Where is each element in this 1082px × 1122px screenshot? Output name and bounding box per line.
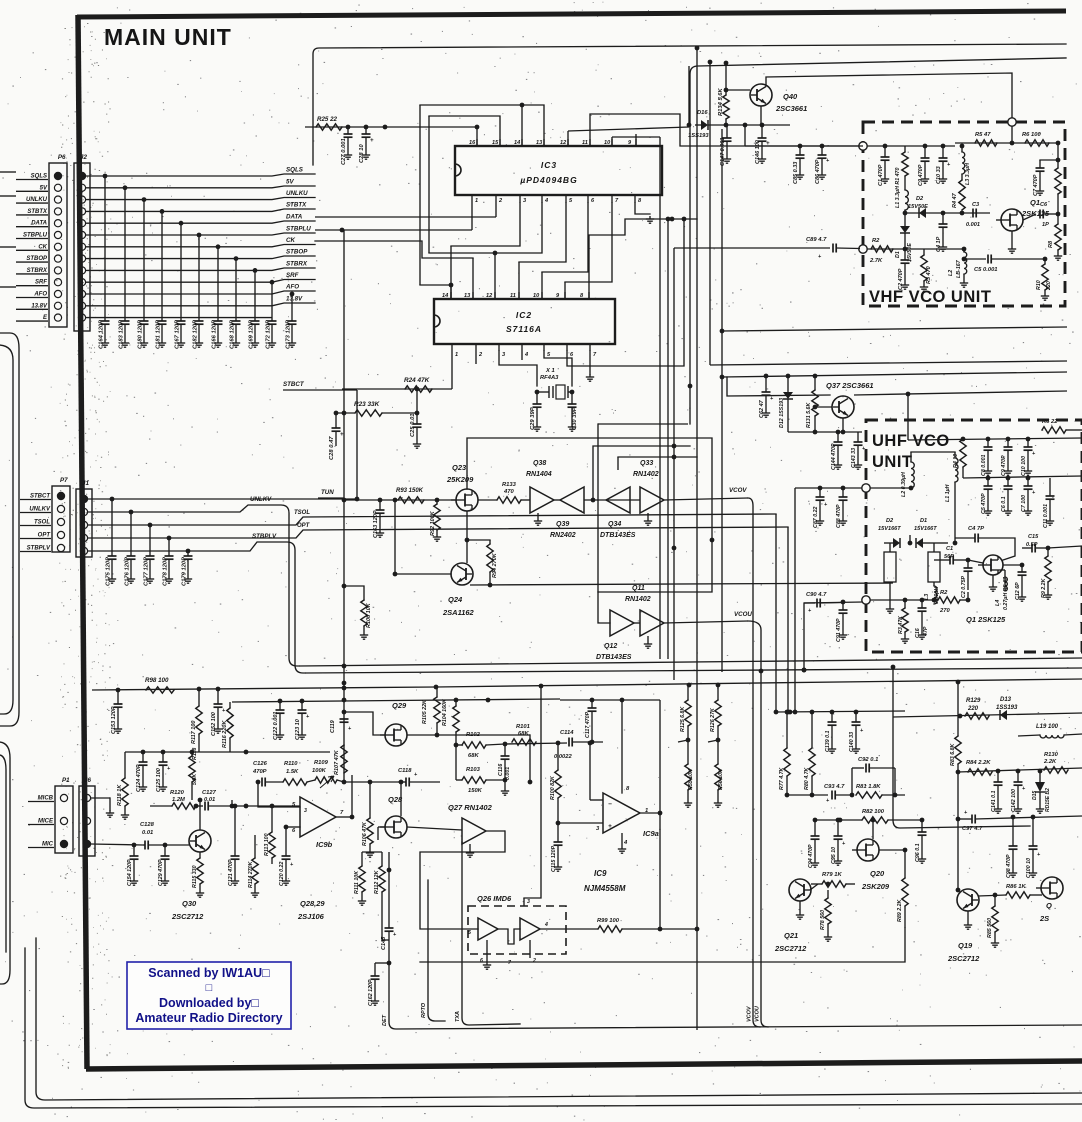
resistor R78 560 xyxy=(827,890,829,898)
wire Q23 drain loop xyxy=(467,438,712,540)
svg-text:UNLKU: UNLKU xyxy=(286,190,308,197)
svg-text:C164 120P: C164 120P xyxy=(99,320,105,349)
svg-text:C28 10: C28 10 xyxy=(359,144,365,163)
svg-text:2SJ106: 2SJ106 xyxy=(297,912,325,921)
svg-text:C116: C116 xyxy=(498,764,504,776)
wire VHF top rail xyxy=(867,145,905,147)
op-amp IC9a xyxy=(603,793,640,833)
capacitor C114 0.0022 xyxy=(568,738,570,747)
svg-text:R2: R2 xyxy=(940,590,948,596)
capacitor C92 0.1 xyxy=(851,768,853,795)
capacitor C5 0.001 xyxy=(964,258,986,260)
svg-text:10: 10 xyxy=(533,293,540,299)
svg-text:C5 0.001: C5 0.001 xyxy=(974,267,998,273)
wire Q23 source xyxy=(466,511,468,563)
resistor R77 4.7K xyxy=(786,712,788,748)
svg-text:R83 6.8K: R83 6.8K xyxy=(950,742,956,766)
capacitor C96 0.1 xyxy=(921,822,923,832)
svg-text:3: 3 xyxy=(304,808,307,814)
wire vertical bus x697 xyxy=(696,46,698,1030)
resistor R79 1K xyxy=(811,883,822,885)
wire IC9a power xyxy=(621,833,623,846)
wire IC9b in- xyxy=(286,826,300,828)
capacitor C121 470P xyxy=(234,845,236,856)
wire vertical bus x420 xyxy=(419,105,421,285)
svg-text:C15: C15 xyxy=(1028,534,1039,540)
svg-text:C10 100: C10 100 xyxy=(1021,456,1027,476)
svg-text:C183 120P: C183 120P xyxy=(119,320,125,349)
wire VCOU riser xyxy=(748,621,768,1027)
resonator UHF left xyxy=(889,543,891,552)
connector P6 pin DATA xyxy=(54,220,61,227)
wire R112 to C145 xyxy=(382,939,389,941)
svg-text:CK: CK xyxy=(38,244,47,250)
svg-text:2SC2712: 2SC2712 xyxy=(774,944,807,953)
wire Q37 base xyxy=(815,406,832,408)
capacitor C117 470P xyxy=(591,700,593,708)
svg-text:R78 560: R78 560 xyxy=(820,910,826,930)
resistor R86 1K xyxy=(978,895,1006,896)
svg-text:15: 15 xyxy=(492,140,499,146)
resistor R99 100 xyxy=(598,926,622,932)
svg-text:R103: R103 xyxy=(466,767,481,773)
svg-text:C89 4.7: C89 4.7 xyxy=(806,237,827,243)
capacitor C144 470P xyxy=(837,432,839,442)
svg-text:C87 0.22: C87 0.22 xyxy=(813,506,819,528)
svg-text:Q39: Q39 xyxy=(556,521,569,528)
resistor R89 2.2K xyxy=(904,850,906,878)
wire net STBTX xyxy=(86,209,315,211)
svg-text:Scanned by IW1AU□: Scanned by IW1AU□ xyxy=(148,966,270,980)
resistor R115 330 xyxy=(199,852,201,858)
svg-text:Q1: Q1 xyxy=(1030,198,1040,207)
svg-text:R92 100K: R92 100K xyxy=(430,510,436,536)
connector J2 pin 9 xyxy=(78,267,85,274)
svg-text:C95 10: C95 10 xyxy=(831,847,837,864)
transistor Q20 2SK209 xyxy=(857,839,879,861)
outer sheet bracket upper xyxy=(0,333,19,726)
resistor R55 10K xyxy=(687,740,689,764)
resistor R133 470 xyxy=(478,499,497,501)
resistor R105 22K xyxy=(436,687,438,697)
svg-text:R114 270K: R114 270K xyxy=(248,860,254,888)
resistor R80 4.7K xyxy=(811,712,813,748)
svg-text:C140 33: C140 33 xyxy=(849,732,855,752)
capacitor C6 0.1 UHF xyxy=(1007,478,1009,486)
svg-text:IC3: IC3 xyxy=(541,160,557,170)
connector P6 pin E xyxy=(54,314,61,321)
border frame top xyxy=(77,11,1066,17)
svg-text:C4 7P: C4 7P xyxy=(968,526,984,532)
resistor R4 10 UHF xyxy=(960,439,966,467)
capacitor C88 470P xyxy=(842,488,844,497)
capacitor C94 470P xyxy=(814,820,816,836)
svg-text:R102: R102 xyxy=(466,732,481,738)
IC3 bottom pin 1 xyxy=(471,195,473,203)
connector P6 pin STBOP xyxy=(54,255,61,262)
capacitor C147 0.001 xyxy=(726,125,728,138)
wire Q1 UHF source xyxy=(992,575,994,584)
svg-text:DTB143ES: DTB143ES xyxy=(596,654,632,661)
capacitor C142 100 xyxy=(1017,771,1019,782)
svg-text:C96 0.1: C96 0.1 xyxy=(915,843,921,862)
svg-text:TUN: TUN xyxy=(321,489,334,496)
svg-text:C127: C127 xyxy=(202,790,217,796)
svg-text:R6 22: R6 22 xyxy=(1042,419,1058,425)
capacitor C127 0.01 xyxy=(204,802,206,811)
outer sheet bracket upper inner xyxy=(0,345,13,714)
wire VHF lower rail xyxy=(867,248,905,250)
diode D2 15V50E xyxy=(919,208,926,218)
svg-text:OPT: OPT xyxy=(297,523,311,529)
capacitor C166 120P xyxy=(216,244,221,249)
capacitor C15 0.5P xyxy=(1031,544,1033,553)
wire net CK to IC2 pin13 xyxy=(315,241,473,258)
op-amp Q34 DTB143ES xyxy=(606,487,630,513)
resistor R114 270K xyxy=(254,835,256,858)
capacitor C86 470P xyxy=(821,146,823,155)
capacitor C177 120P xyxy=(148,523,153,528)
capacitor C95 10 xyxy=(837,820,839,836)
svg-text:C92 0.1: C92 0.1 xyxy=(858,757,878,763)
op-amp IC3 uPD4094BG xyxy=(455,146,662,195)
IC3 top pin 13 xyxy=(543,139,545,146)
svg-text:LB-167: LB-167 xyxy=(956,259,962,278)
svg-text:RD15E B2: RD15E B2 xyxy=(1045,788,1051,812)
svg-text:4: 4 xyxy=(544,922,548,928)
IC3 bottom pin 6 xyxy=(587,195,589,203)
svg-text:Q37 2SC3661: Q37 2SC3661 xyxy=(826,381,874,390)
IC3 top pin 9 xyxy=(635,139,637,146)
svg-text:C28 0.47: C28 0.47 xyxy=(329,436,335,460)
wire UHF top rail xyxy=(908,438,1082,440)
capacitor C28b 0.47 xyxy=(335,413,337,428)
svg-text:1P: 1P xyxy=(1042,222,1049,228)
resistor R98 100 xyxy=(146,687,174,693)
svg-text:D2: D2 xyxy=(916,196,924,202)
svg-text:R126 27K: R126 27K xyxy=(710,707,716,732)
svg-text:C9 470P: C9 470P xyxy=(1001,455,1007,476)
svg-text:STBPLV: STBPLV xyxy=(252,533,277,540)
wire IC2 pin2 stub xyxy=(475,351,477,364)
wire vertical bus x668 xyxy=(667,219,669,659)
capacitor C162 120P xyxy=(375,962,389,964)
svg-text:C139 0.1: C139 0.1 xyxy=(825,730,831,752)
wire bottom net rail xyxy=(396,1025,1082,1029)
capacitor C120 0.22 xyxy=(285,827,287,856)
resistor R10 220 xyxy=(1044,259,1046,264)
wire UHF second rail xyxy=(963,476,1082,478)
wire IC3 pin5 to IC2 pin11 xyxy=(519,203,566,262)
wire IC3 pin6 to IC2 pin10 xyxy=(542,203,588,272)
capacitor C153 120P xyxy=(117,690,119,704)
svg-text:0.01: 0.01 xyxy=(204,797,215,803)
capacitor C10 100 UHF xyxy=(1027,439,1029,447)
capacitor C122 0.001 xyxy=(279,701,281,710)
svg-text:Q11: Q11 xyxy=(632,585,645,592)
svg-text:270: 270 xyxy=(939,608,950,614)
svg-text:Amateur Radio Directory: Amateur Radio Directory xyxy=(135,1011,282,1025)
svg-text:STBOP: STBOP xyxy=(286,249,308,256)
svg-text:R107 47K: R107 47K xyxy=(334,749,340,775)
wire net STBOP xyxy=(86,256,315,259)
svg-text:L1 3.3µH R1 470: L1 3.3µH R1 470 xyxy=(895,168,901,208)
svg-text:VCOV: VCOV xyxy=(747,1005,753,1022)
svg-text:C2 470P: C2 470P xyxy=(898,268,904,290)
connector J1 pin 5 xyxy=(80,547,87,554)
svg-text:13.8V: 13.8V xyxy=(286,296,303,303)
capacitor C152 100 xyxy=(217,689,219,704)
IC3 bottom pin 7 xyxy=(611,195,613,203)
svg-text:L3: L3 xyxy=(924,594,930,600)
diode D2 15V166T UHF xyxy=(884,542,893,544)
wire Q30 collector rail xyxy=(192,799,232,801)
wire IC9a out drop xyxy=(659,813,661,929)
wire left edge stub 2 xyxy=(0,195,16,197)
svg-text:C1 470P: C1 470P xyxy=(878,164,884,186)
wire IC3 pin13 bus xyxy=(420,105,544,146)
wire net AFO xyxy=(86,291,315,294)
svg-text:2.2K: 2.2K xyxy=(1043,759,1057,765)
svg-text:AFO: AFO xyxy=(285,284,299,291)
connector J2 pin 7 xyxy=(78,243,85,250)
svg-text:Downloaded by□: Downloaded by□ xyxy=(159,996,259,1010)
watermark box xyxy=(127,962,291,1029)
capacitor C11 0.001 xyxy=(1049,478,1051,496)
svg-text:P6: P6 xyxy=(58,154,66,161)
wire VCOV xyxy=(664,498,748,500)
svg-text:S7116A: S7116A xyxy=(506,324,542,334)
resistor R106 47K xyxy=(369,782,371,818)
svg-text:C152 100: C152 100 xyxy=(211,712,217,736)
capacitor C7 470P xyxy=(1040,159,1058,161)
svg-text:10: 10 xyxy=(604,140,611,146)
transistor Q24 2SA1162 xyxy=(451,563,473,585)
svg-text:15V50E: 15V50E xyxy=(907,243,913,262)
capacitor C180 120P xyxy=(142,197,147,202)
IC2 bottom pin 7 xyxy=(589,344,591,351)
wire net STBPLU xyxy=(86,233,315,235)
wire net STBCT xyxy=(88,498,357,500)
svg-text:0.001: 0.001 xyxy=(966,222,980,228)
wire IC2 pin4 stub xyxy=(521,351,523,360)
svg-text:16: 16 xyxy=(469,140,476,146)
wire TXA riser xyxy=(462,842,520,1025)
svg-text:R89 2.2K: R89 2.2K xyxy=(897,898,903,922)
wire Q39 junction xyxy=(584,499,640,501)
IC2 bottom pin 2 xyxy=(475,344,477,351)
IC3 top pin 15 xyxy=(499,139,501,146)
wire UHF gate rail xyxy=(870,487,911,489)
wire Q37 top rail xyxy=(786,374,791,379)
svg-text:C6 0.1: C6 0.1 xyxy=(1001,496,1007,512)
svg-text:Q34: Q34 xyxy=(608,521,621,528)
wire R119 rail xyxy=(125,751,330,753)
wire IC3 pin4 to IC2 pin12 xyxy=(429,203,542,253)
svg-text:R2: R2 xyxy=(872,238,880,244)
wire net SRF xyxy=(86,280,315,283)
wire IC3 pin15 bus xyxy=(429,116,500,146)
svg-text:D12 1SS193: D12 1SS193 xyxy=(779,398,785,428)
svg-text:Q40: Q40 xyxy=(783,92,798,101)
svg-text:VCOU: VCOU xyxy=(734,611,752,618)
op-amp IC9b xyxy=(300,797,336,837)
svg-text:R24 47K: R24 47K xyxy=(404,377,430,384)
wire Q12 feedback loop xyxy=(598,540,712,623)
svg-text:470P: 470P xyxy=(252,769,267,775)
wire R84 rail xyxy=(958,768,1082,772)
inductor L2 0.39uH UHF xyxy=(911,462,914,488)
wire net TSOL xyxy=(88,514,776,525)
wire VHF gate rail xyxy=(905,212,990,214)
svg-text:220: 220 xyxy=(967,706,979,712)
connector J1 pin 4 xyxy=(80,534,87,541)
connector P6 pin SRF xyxy=(54,279,61,286)
wire audio bias rail xyxy=(232,699,560,702)
svg-text:R8: R8 xyxy=(1048,240,1054,248)
wire vertical bus x722 xyxy=(721,129,723,672)
svg-text:R110: R110 xyxy=(284,761,298,767)
IC3 top pin 11 xyxy=(589,139,591,146)
svg-text:C169 120P: C169 120P xyxy=(249,320,255,349)
svg-text:11: 11 xyxy=(582,140,588,146)
wire Q20 out xyxy=(879,849,905,851)
svg-text:C128: C128 xyxy=(140,822,155,828)
IC3 bottom pin 5 xyxy=(565,195,567,203)
wire left edge stub 3 xyxy=(0,246,16,248)
IC2 top pin 12 xyxy=(494,292,496,299)
svg-text:1.2M: 1.2M xyxy=(172,797,185,803)
wire upper right rail xyxy=(776,711,905,712)
svg-text:R111 10K: R111 10K xyxy=(354,870,360,894)
svg-text:R106 47K: R106 47K xyxy=(362,821,368,846)
capacitor C168 120P xyxy=(234,256,239,261)
svg-text:UNLKU: UNLKU xyxy=(26,197,48,203)
resistor R125 6.8K xyxy=(687,687,689,700)
resistor R113 100 xyxy=(271,806,273,832)
svg-text:220: 220 xyxy=(1046,281,1052,291)
svg-text:Q27 RN1402: Q27 RN1402 xyxy=(448,803,493,812)
svg-text:D16: D16 xyxy=(697,110,708,116)
svg-text:C7 100: C7 100 xyxy=(1021,495,1027,512)
wire C114 row xyxy=(505,743,567,744)
svg-text:12: 12 xyxy=(560,140,567,146)
wire Q1 drain xyxy=(1016,200,1018,209)
svg-text:C16: C16 xyxy=(915,628,921,638)
svg-text:L4: L4 xyxy=(995,600,1001,606)
wire J6 pin3 MIC xyxy=(91,844,143,845)
svg-text:STBCT: STBCT xyxy=(30,494,51,500)
resistor R3 470 xyxy=(923,249,925,255)
resistor R5 47 xyxy=(975,140,997,146)
connector P6 pin 5V xyxy=(54,184,61,191)
svg-text:5V: 5V xyxy=(286,179,294,186)
wire Q20 drain xyxy=(872,820,874,839)
svg-text:R117 100: R117 100 xyxy=(191,721,197,744)
IC2 top pin 14 xyxy=(450,292,452,299)
IC2 top pin 8 xyxy=(588,292,590,299)
capacitor C98 470P xyxy=(1012,816,1014,846)
svg-text:R118: R118 xyxy=(192,748,198,760)
resistor R107 47K xyxy=(341,745,347,773)
op-amp Q26a xyxy=(478,918,498,940)
svg-text:SRF: SRF xyxy=(35,280,47,286)
resistor R83 6.8K xyxy=(957,682,959,736)
node UHF lower entry xyxy=(862,596,870,604)
svg-text:STBRX: STBRX xyxy=(286,261,308,268)
wire net DATA xyxy=(86,221,315,223)
svg-text:D13: D13 xyxy=(1000,697,1012,703)
wire inter-VCO rail 2 xyxy=(710,361,1067,365)
IC2 bottom pin 1 xyxy=(451,344,453,351)
resistor R81 1.8K xyxy=(856,792,882,798)
border frame bottom xyxy=(86,1061,1082,1069)
ground IC2 pin7 xyxy=(589,374,591,377)
wire TUN rail xyxy=(344,499,455,501)
capacitor C128 0.01 xyxy=(143,844,145,846)
resistor R25 22 xyxy=(316,124,342,130)
svg-text:STBCT: STBCT xyxy=(283,381,305,388)
wire IC3 pin16 to 5V rail xyxy=(476,127,478,146)
IC3 top pin 12 xyxy=(567,139,569,146)
svg-text:STBPLU: STBPLU xyxy=(23,233,48,239)
capacitor C4 7P UHF xyxy=(974,534,976,543)
svg-text:STBRX: STBRX xyxy=(27,268,48,274)
wire IC2 pin6 stub xyxy=(567,219,684,366)
capacitor C4 1P xyxy=(942,213,944,224)
wire VCOV riser xyxy=(748,498,760,1027)
IC3 bottom pin 8 xyxy=(634,195,636,203)
svg-text:2SK209: 2SK209 xyxy=(861,882,890,891)
svg-text:C181 120P: C181 120P xyxy=(156,320,162,349)
connector J2 pin 11 xyxy=(78,290,85,297)
transistor Q37 2SC3661 xyxy=(832,396,854,418)
svg-text:C3: C3 xyxy=(972,202,980,208)
wire IC2 pin1 to R24 xyxy=(451,351,453,389)
IC2 bottom pin 5 xyxy=(543,344,545,351)
svg-text:RN1404: RN1404 xyxy=(526,471,552,478)
svg-text:5.6K: 5.6K xyxy=(192,773,198,785)
ground Q38 xyxy=(537,513,539,518)
border frame left xyxy=(78,15,87,1069)
wire VHF R5 rail xyxy=(955,142,1060,144)
svg-text:P1: P1 xyxy=(62,777,70,784)
IC2 top pin 13 xyxy=(472,292,474,299)
op-amp Q12 DTB143ES xyxy=(610,610,634,636)
capacitor C129 470P xyxy=(164,845,166,856)
op-amp Q27 RN1402 xyxy=(462,818,486,844)
svg-text:R85 560: R85 560 xyxy=(987,918,993,938)
svg-text:IC9b: IC9b xyxy=(316,840,333,849)
wire Q37 emitter rail xyxy=(842,418,844,432)
resistor R6 22 UHF xyxy=(1042,427,1066,433)
svg-text:R55 10K: R55 10K xyxy=(688,768,694,790)
transistor Q29 2SJ106 xyxy=(385,724,407,746)
resistor R8 470 xyxy=(1057,214,1059,224)
capacitor C183 120P xyxy=(123,185,128,190)
op-amp IC2 S7116A xyxy=(434,299,615,344)
svg-text:+: + xyxy=(370,138,374,144)
wire Q27 out xyxy=(486,830,505,832)
svg-text:25K209: 25K209 xyxy=(446,475,474,484)
inductor L3 0.39uH UHF xyxy=(934,586,937,604)
wire IC3 pin11 to VHF rail xyxy=(590,114,863,146)
capacitor C140 33 xyxy=(855,712,857,722)
svg-text:R3 470: R3 470 xyxy=(926,266,932,284)
connector P6 pin SQLS xyxy=(54,172,61,179)
capacitor C172 120P xyxy=(270,280,275,285)
wire R55 tap xyxy=(678,740,688,742)
